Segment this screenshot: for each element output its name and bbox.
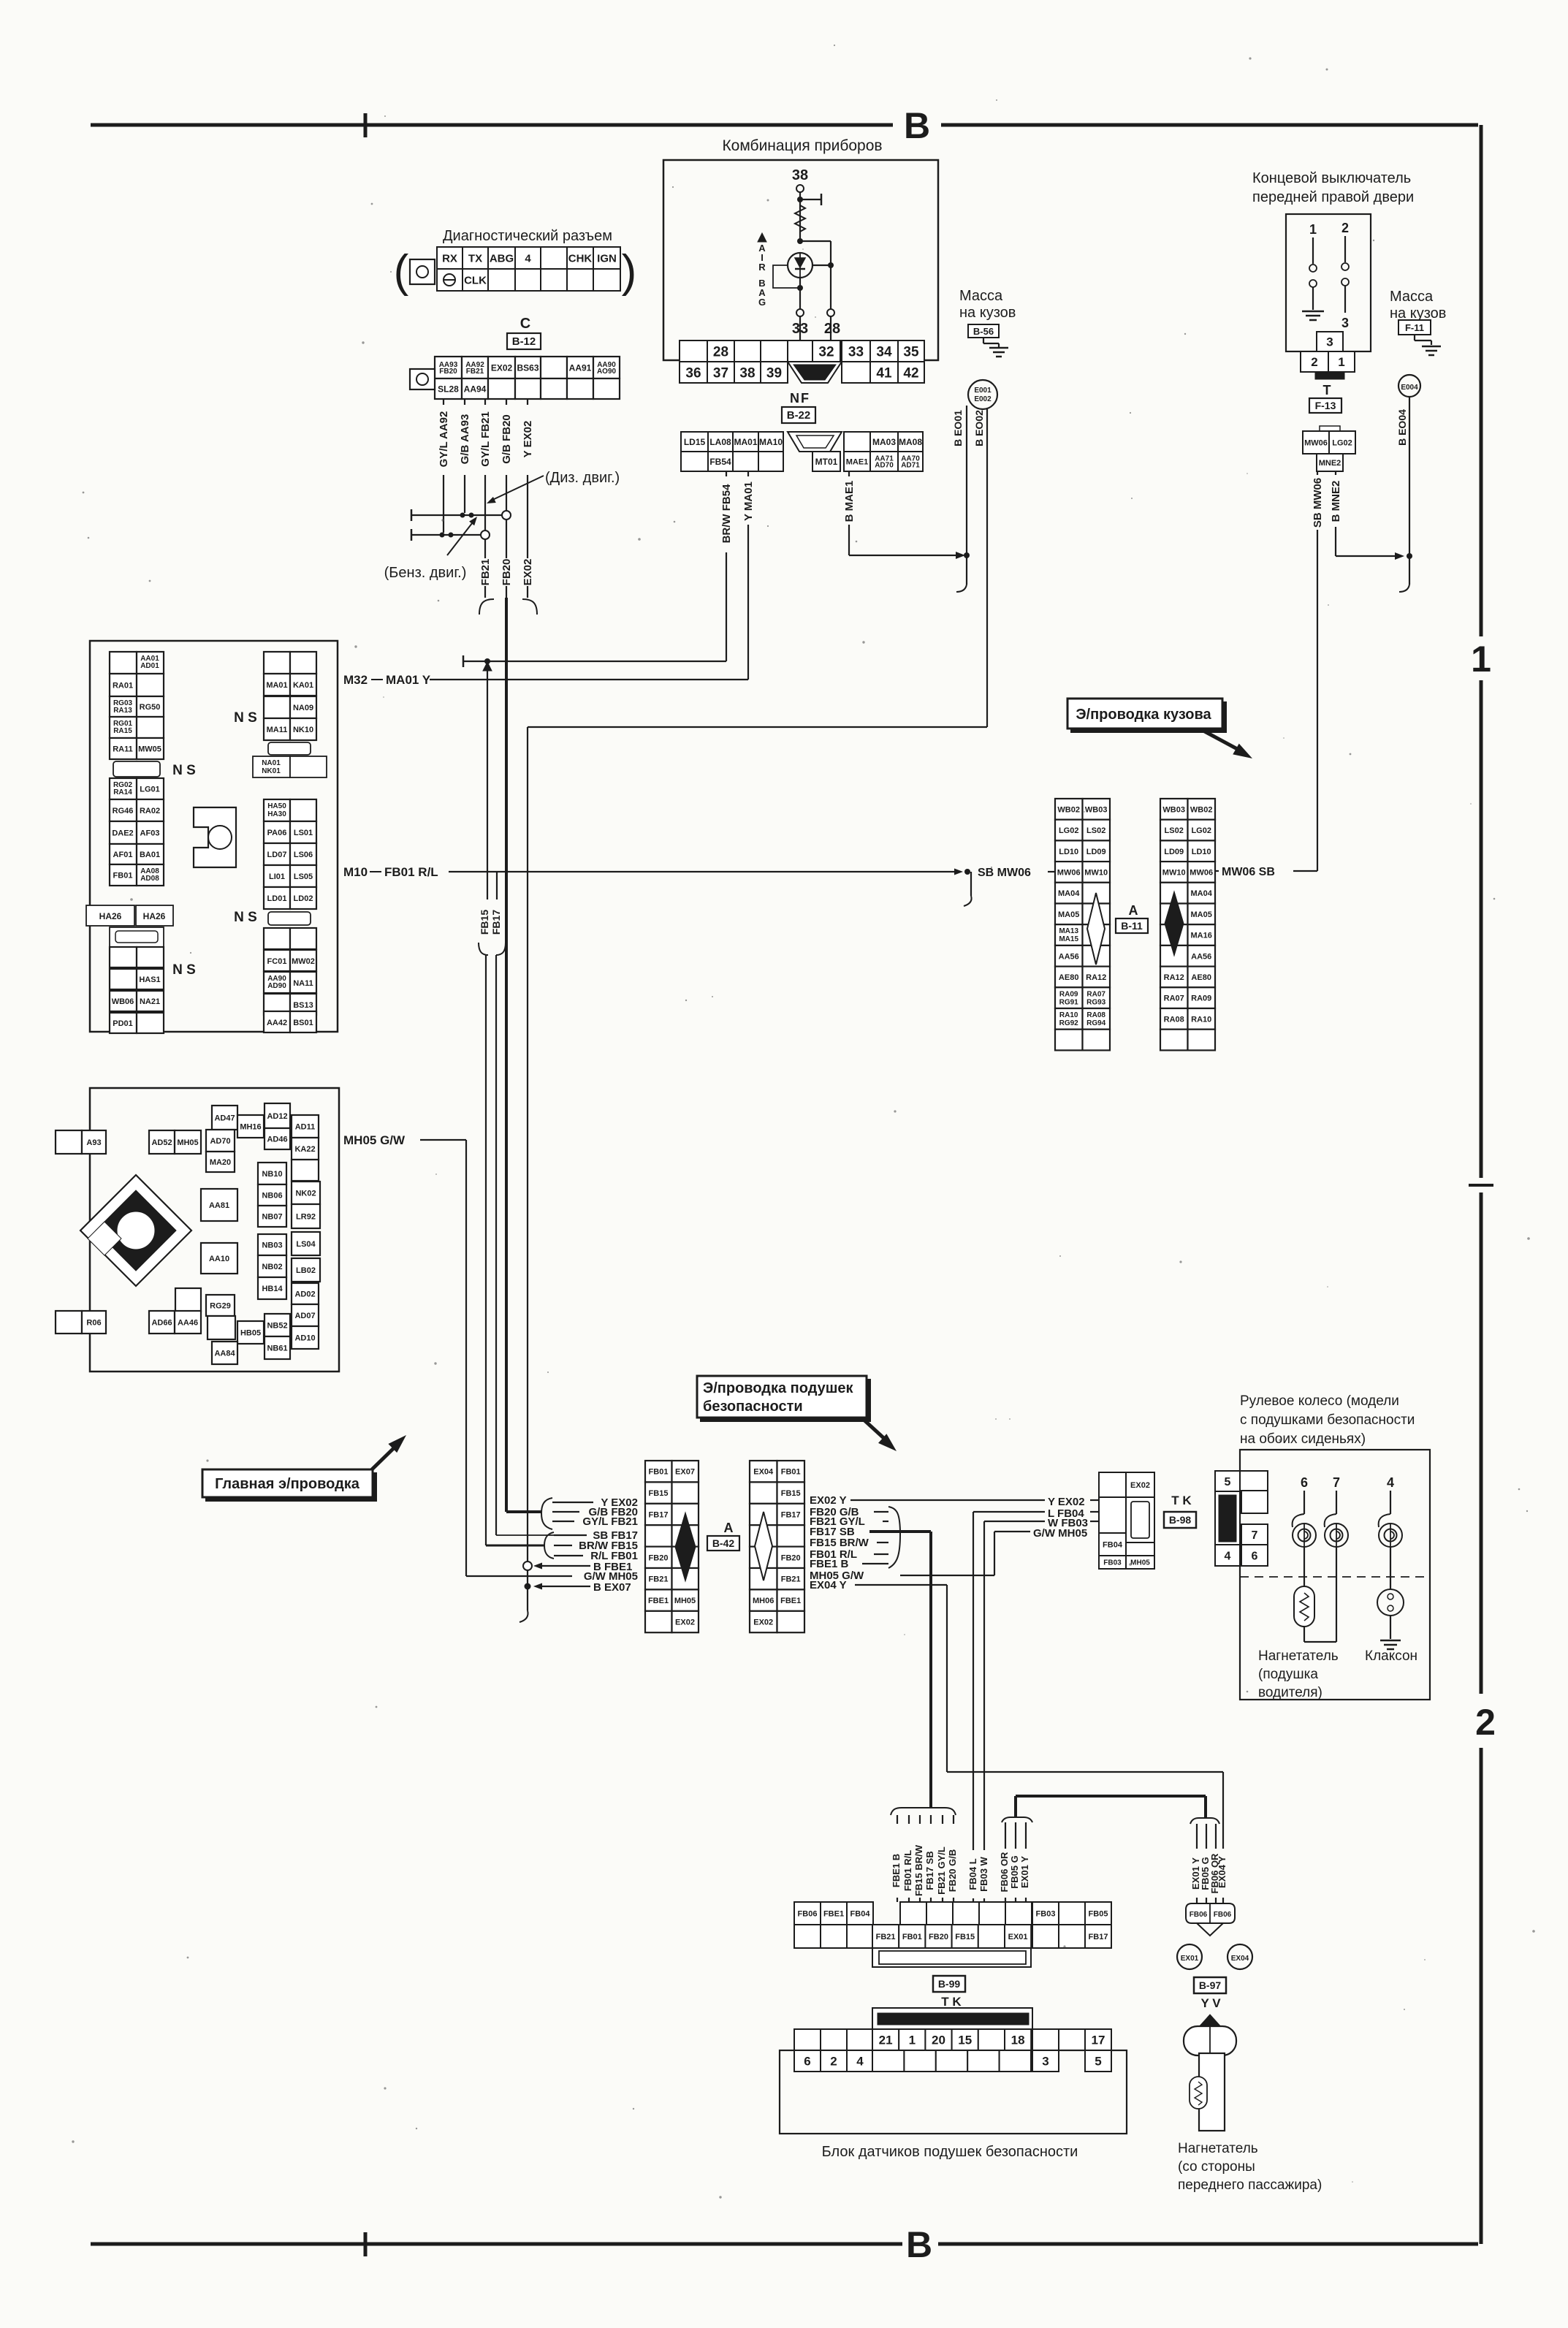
svg-text:AD10: AD10 [294,1334,315,1342]
svg-text:FB20 G/B: FB20 G/B [947,1849,958,1893]
svg-text:MH16: MH16 [240,1122,261,1131]
svg-text:MA01: MA01 [734,437,757,447]
svg-text:MH05: MH05 [177,1138,198,1147]
svg-text:(: ( [394,246,409,297]
svg-text:RA10: RA10 [1191,1015,1211,1024]
svg-text:EX04: EX04 [1231,1955,1249,1963]
svg-text:LS01: LS01 [294,829,313,837]
svg-text:безопасности: безопасности [703,1399,803,1415]
svg-text:FB05: FB05 [1089,1909,1108,1918]
svg-text:Масса: Масса [959,288,1003,304]
svg-text:MW06 SB: MW06 SB [1222,866,1275,878]
svg-text:FB21: FB21 [876,1933,896,1941]
svg-text:AD12: AD12 [267,1112,287,1121]
svg-text:B-12: B-12 [512,335,536,348]
svg-text:28: 28 [713,344,728,360]
svg-text:1: 1 [909,2034,916,2047]
svg-text:MA11: MA11 [267,726,288,734]
svg-text:B-42: B-42 [712,1537,735,1549]
svg-text:Нагнетатель: Нагнетатель [1258,1648,1339,1664]
svg-text:FBE1: FBE1 [780,1597,801,1605]
svg-text:CLK: CLK [464,274,487,286]
svg-text:BS13: BS13 [293,1001,313,1010]
svg-text:7: 7 [1252,1529,1258,1542]
svg-text:B-11: B-11 [1121,920,1143,932]
svg-text:WB06: WB06 [112,997,134,1006]
svg-text:4: 4 [1387,1475,1394,1490]
svg-text:T: T [1323,383,1331,397]
svg-text:WB02: WB02 [1057,805,1080,814]
svg-text:NA09: NA09 [293,704,313,712]
svg-text:HA50: HA50 [267,802,286,810]
svg-text:AD07: AD07 [294,1312,315,1320]
svg-text:NK01: NK01 [262,767,281,775]
svg-text:2: 2 [1475,1702,1496,1743]
svg-text:RA13: RA13 [113,707,132,715]
svg-text:Диагностический разъем: Диагностический разъем [443,228,612,244]
svg-text:MT01: MT01 [815,457,838,467]
svg-text:NB07: NB07 [262,1212,282,1221]
svg-text:MW05: MW05 [138,745,161,754]
svg-text:AD01: AD01 [140,662,159,670]
svg-text:AD47: AD47 [214,1114,235,1122]
svg-text:LA08: LA08 [709,437,731,447]
svg-text:AF03: AF03 [140,829,160,838]
svg-text:N S: N S [234,910,257,925]
svg-text:FB15: FB15 [649,1489,669,1498]
svg-text:Масса: Масса [1390,289,1434,305]
svg-text:NB06: NB06 [262,1191,282,1200]
svg-text:BS63: BS63 [517,362,538,373]
svg-text:EX04: EX04 [753,1468,774,1477]
svg-text:G: G [758,297,766,308]
svg-text:FBE1 B: FBE1 B [891,1854,902,1887]
svg-text:MA04: MA04 [1058,889,1080,898]
svg-text:T K: T K [941,1995,962,2009]
svg-text:(подушка: (подушка [1258,1667,1318,1682]
svg-text:FB17: FB17 [1089,1933,1108,1941]
svg-text:GY/L FB21: GY/L FB21 [582,1515,638,1528]
svg-text:AA94: AA94 [464,384,487,394]
svg-text:на кузов: на кузов [959,305,1016,321]
svg-text:HA26: HA26 [143,911,166,921]
svg-text:HB05: HB05 [240,1328,261,1337]
svg-text:NB03: NB03 [262,1241,282,1249]
svg-text:5: 5 [1095,2055,1101,2069]
svg-text:KA22: KA22 [294,1145,315,1154]
svg-text:AD90: AD90 [267,982,286,990]
svg-text:FB06 OR: FB06 OR [999,1852,1010,1893]
svg-text:R/L FB01: R/L FB01 [590,1550,638,1562]
svg-text:G/B AA93: G/B AA93 [459,414,471,465]
svg-text:4: 4 [525,252,531,265]
svg-text:NB02: NB02 [262,1263,282,1271]
svg-text:FB01: FB01 [902,1933,922,1941]
svg-text:E002: E002 [974,395,992,403]
svg-text:RA02: RA02 [140,807,160,815]
svg-text:RG93: RG93 [1086,998,1106,1006]
svg-text:NB10: NB10 [262,1170,282,1179]
svg-text:FB17 SB: FB17 SB [924,1851,935,1890]
svg-text:RG50: RG50 [140,703,161,712]
svg-text:T K: T K [1171,1494,1192,1507]
svg-text:FB20: FB20 [929,1933,948,1941]
svg-text:FB04 L: FB04 L [967,1858,978,1890]
svg-text:AA10: AA10 [209,1255,229,1263]
svg-text:DAE2: DAE2 [112,829,133,838]
svg-text:17: 17 [1092,2034,1105,2047]
svg-text:MA01 Y: MA01 Y [386,673,431,687]
svg-text:RA07: RA07 [1164,994,1184,1003]
svg-text:(Бенз. двиг.): (Бенз. двиг.) [384,565,467,581]
svg-text:HA26: HA26 [99,911,122,921]
svg-text:LD10: LD10 [1059,848,1078,856]
svg-text:4: 4 [856,2055,864,2069]
svg-text:SL28: SL28 [438,384,459,394]
svg-text:B-98: B-98 [1169,1514,1192,1526]
svg-text:FB15: FB15 [781,1489,801,1498]
svg-text:RA09: RA09 [1059,990,1078,998]
svg-text:B EX07: B EX07 [593,1581,631,1594]
svg-text:EX02 Y: EX02 Y [810,1494,847,1507]
svg-text:LI01: LI01 [269,872,285,881]
svg-text:FB20: FB20 [501,559,513,586]
svg-text:Нагнетатель: Нагнетатель [1178,2141,1258,2156]
svg-text:AD02: AD02 [294,1290,315,1298]
svg-text:HAS1: HAS1 [139,975,160,984]
svg-text:EX04 Y: EX04 Y [1217,1856,1228,1888]
svg-text:RA12: RA12 [1086,973,1106,982]
svg-text:FBE1 B: FBE1 B [810,1558,849,1570]
svg-text:1: 1 [1309,222,1317,237]
svg-text:B-97: B-97 [1199,1979,1222,1991]
svg-text:WB02: WB02 [1190,805,1213,814]
svg-text:водителя): водителя) [1258,1685,1322,1700]
svg-text:MA10: MA10 [759,437,783,447]
svg-text:FB21: FB21 [649,1575,669,1584]
svg-text:FB06: FB06 [798,1909,818,1918]
svg-text:LD01: LD01 [267,894,287,903]
svg-text:FB01: FB01 [649,1468,669,1477]
svg-text:3: 3 [1341,316,1349,330]
svg-text:G/W MH05: G/W MH05 [584,1570,638,1583]
svg-text:RG94: RG94 [1086,1019,1106,1027]
svg-text:MA05: MA05 [1058,910,1079,919]
svg-text:Главная э/проводка: Главная э/проводка [215,1476,360,1492]
svg-text:MA08: MA08 [899,437,922,447]
svg-text:15: 15 [958,2034,972,2047]
svg-text:EX07: EX07 [675,1468,695,1477]
svg-text:EX02: EX02 [753,1618,773,1627]
svg-text:на обоих сиденьях): на обоих сиденьях) [1240,1431,1366,1447]
svg-text:AD11: AD11 [295,1122,316,1131]
svg-text:HA30: HA30 [267,810,286,818]
svg-text:N S: N S [234,710,257,726]
svg-text:RA12: RA12 [1164,973,1184,982]
svg-text:21: 21 [879,2034,893,2047]
svg-text:FB15 BR/W: FB15 BR/W [810,1537,869,1549]
svg-text:4: 4 [1225,1550,1231,1562]
svg-text:37: 37 [713,365,728,381]
svg-text:6: 6 [1252,1550,1258,1562]
svg-text:MH05: MH05 [1130,1559,1150,1567]
svg-text:WB03: WB03 [1162,805,1185,814]
svg-text:RA07: RA07 [1086,990,1105,998]
svg-text:B-22: B-22 [787,409,811,422]
svg-text:E001: E001 [974,387,992,395]
svg-text:RX: RX [442,252,457,265]
svg-text:FB05 G: FB05 G [1009,1855,1020,1889]
svg-text:RA11: RA11 [113,745,133,754]
svg-text:FB17: FB17 [490,910,502,935]
svg-text:FB01 R/L: FB01 R/L [384,865,438,879]
svg-text:3: 3 [1042,2055,1048,2069]
svg-text:FB04: FB04 [1103,1540,1123,1549]
svg-text:MA20: MA20 [210,1158,231,1167]
svg-text:FB21: FB21 [479,559,492,586]
svg-text:MH05: MH05 [674,1597,696,1605]
svg-text:FB20: FB20 [439,368,457,376]
svg-text:FB06: FB06 [1190,1911,1208,1919]
svg-text:FB15 BR/W: FB15 BR/W [913,1844,924,1896]
svg-text:AA42: AA42 [267,1019,287,1027]
svg-text:1: 1 [1471,639,1491,680]
svg-text:EX01: EX01 [1181,1955,1199,1963]
svg-text:HB14: HB14 [262,1285,283,1293]
svg-text:1: 1 [1338,355,1344,369]
svg-text:RA15: RA15 [113,727,132,735]
svg-text:R06: R06 [86,1318,101,1327]
svg-text:AD70: AD70 [210,1137,230,1146]
svg-text:R: R [758,262,766,273]
svg-text:RG46: RG46 [113,807,134,815]
svg-text:LS06: LS06 [294,851,313,859]
svg-text:A93: A93 [86,1138,101,1147]
svg-text:35: 35 [903,344,919,360]
svg-text:MA04: MA04 [1191,889,1213,898]
svg-text:AD08: AD08 [140,875,159,883]
svg-text:A: A [1129,903,1138,918]
svg-text:EX02: EX02 [491,362,513,373]
svg-text:LS04: LS04 [296,1240,316,1249]
svg-text:LB02: LB02 [296,1266,316,1275]
svg-text:39: 39 [766,365,782,381]
svg-text:(Диз. двиг.): (Диз. двиг.) [545,470,620,486]
svg-text:передней правой двери: передней правой двери [1252,189,1414,205]
svg-text:ABG: ABG [490,252,514,265]
svg-text:18: 18 [1011,2034,1025,2047]
svg-text:NK10: NK10 [293,726,313,734]
svg-text:(со стороны: (со стороны [1178,2159,1255,2175]
svg-text:LD15: LD15 [684,437,706,447]
svg-text:FB03: FB03 [1036,1909,1056,1918]
svg-text:LS05: LS05 [294,872,313,881]
svg-text:с подушками безопасности: с подушками безопасности [1240,1412,1415,1428]
svg-text:NK02: NK02 [295,1189,316,1198]
svg-text:B-56: B-56 [973,326,994,337]
svg-text:IGN: IGN [597,252,617,265]
svg-text:36: 36 [685,365,701,381]
svg-text:LR92: LR92 [296,1212,316,1221]
svg-text:B MNE2: B MNE2 [1330,481,1342,522]
svg-text:AE80: AE80 [1059,973,1079,982]
svg-text:Y EX02: Y EX02 [522,421,534,458]
svg-text:FB21: FB21 [466,368,484,376]
svg-text:NA11: NA11 [293,979,313,988]
svg-text:LD07: LD07 [267,851,287,859]
svg-text:2: 2 [1341,221,1349,235]
svg-text:FB01 R/L: FB01 R/L [902,1850,913,1891]
svg-text:MA15: MA15 [1059,935,1078,943]
svg-text:B: B [904,105,930,146]
svg-text:AA91: AA91 [569,362,592,373]
svg-text:38: 38 [739,365,755,381]
svg-text:28: 28 [824,321,840,337]
svg-text:G/W MH05: G/W MH05 [1033,1527,1087,1540]
svg-text:FB01: FB01 [781,1468,801,1477]
svg-text:AA56: AA56 [1059,952,1079,961]
svg-text:LD02: LD02 [294,894,313,903]
svg-text:AE80: AE80 [1191,973,1211,982]
svg-text:на кузов: на кузов [1390,305,1446,322]
svg-text:FC01: FC01 [267,957,287,966]
svg-text:MW06: MW06 [1057,868,1081,877]
svg-text:LS02: LS02 [1086,826,1105,835]
svg-text:M32: M32 [343,673,368,687]
svg-text:AD66: AD66 [151,1318,172,1327]
svg-text:B MAE1: B MAE1 [843,481,856,522]
svg-text:2: 2 [1311,355,1317,369]
svg-text:RG92: RG92 [1059,1019,1079,1027]
svg-text:FB04: FB04 [850,1909,871,1918]
svg-text:FB17: FB17 [781,1511,801,1520]
svg-text:KA01: KA01 [293,681,313,690]
svg-text:FB21: FB21 [781,1575,801,1584]
svg-text:LD10: LD10 [1192,848,1211,856]
svg-text:FB21 GY/L: FB21 GY/L [936,1846,947,1895]
svg-text:3: 3 [1326,335,1333,349]
svg-text:20: 20 [932,2034,945,2047]
svg-text:FB03: FB03 [1103,1559,1122,1567]
svg-text:41: 41 [876,365,892,381]
svg-text:C: C [520,316,530,332]
svg-text:AF01: AF01 [113,851,133,859]
svg-text:LD09: LD09 [1086,848,1106,856]
svg-text:RA09: RA09 [1191,994,1211,1003]
svg-text:AD52: AD52 [151,1138,172,1147]
svg-text:MA16: MA16 [1191,932,1212,940]
svg-text:F-13: F-13 [1315,400,1336,411]
svg-text:Клаксон: Клаксон [1365,1648,1417,1664]
svg-text:EX02: EX02 [675,1618,695,1627]
svg-text:MH06: MH06 [753,1597,774,1605]
svg-text:N S: N S [172,962,196,978]
svg-text:): ) [622,246,637,297]
svg-text:RA14: RA14 [113,788,132,796]
svg-text:PD01: PD01 [113,1019,133,1028]
svg-text:FB15: FB15 [955,1933,975,1941]
svg-text:FB54: FB54 [709,457,731,467]
svg-text:FB03 W: FB03 W [978,1856,989,1891]
svg-text:MAE1: MAE1 [846,457,869,466]
svg-text:AD46: AD46 [267,1135,287,1144]
svg-text:32: 32 [818,344,834,360]
svg-text:Э/проводка кузова: Э/проводка кузова [1076,707,1211,723]
svg-text:B-99: B-99 [938,1978,961,1990]
svg-text:FB06: FB06 [1214,1911,1232,1919]
svg-text:B EO02: B EO02 [973,410,985,446]
svg-text:SB MW06: SB MW06 [978,867,1031,879]
svg-text:B EO01: B EO01 [952,410,964,446]
svg-text:N S: N S [172,763,196,778]
svg-text:BS01: BS01 [293,1019,313,1027]
svg-text:FB01: FB01 [113,872,133,880]
svg-text:AA56: AA56 [1191,952,1211,961]
svg-text:LG02: LG02 [1332,438,1352,447]
svg-text:AA81: AA81 [209,1201,229,1210]
svg-text:MW10: MW10 [1084,868,1108,877]
svg-text:RG29: RG29 [210,1301,231,1310]
svg-text:FB17: FB17 [649,1511,669,1520]
svg-text:6: 6 [804,2055,810,2069]
svg-text:Y MA01: Y MA01 [742,482,755,521]
svg-text:NA21: NA21 [140,997,160,1006]
svg-text:NA01: NA01 [262,759,281,767]
svg-text:Э/проводка подушек: Э/проводка подушек [703,1380,854,1396]
svg-text:RA08: RA08 [1086,1011,1105,1019]
svg-text:MW02: MW02 [292,957,315,966]
svg-text:M10: M10 [343,865,368,879]
svg-text:GY/L AA92: GY/L AA92 [438,411,450,468]
svg-text:LG02: LG02 [1059,826,1079,835]
svg-text:FB15: FB15 [479,910,490,935]
svg-text:NF: NF [790,391,810,406]
svg-text:B: B [906,2224,932,2265]
svg-text:MA03: MA03 [872,437,896,447]
svg-text:LD09: LD09 [1164,848,1184,856]
svg-text:EX01: EX01 [1008,1933,1028,1941]
svg-text:MA05: MA05 [1191,910,1212,919]
svg-text:AD71: AD71 [901,462,920,470]
svg-text:AA46: AA46 [178,1318,198,1327]
svg-text:RA01: RA01 [113,682,133,691]
svg-text:PA06: PA06 [267,829,287,837]
svg-text:A: A [724,1521,734,1535]
svg-text:34: 34 [876,344,892,360]
svg-text:MH05 G/W: MH05 G/W [343,1133,406,1147]
svg-text:FBE1: FBE1 [648,1597,669,1605]
svg-text:6: 6 [1301,1475,1308,1490]
svg-text:RA08: RA08 [1164,1015,1184,1024]
svg-text:Y EX02: Y EX02 [1048,1496,1085,1508]
svg-text:MA13: MA13 [1059,927,1078,935]
svg-text:Комбинация приборов: Комбинация приборов [722,137,882,154]
svg-text:AD70: AD70 [875,462,894,470]
svg-text:SB MW06: SB MW06 [1312,478,1324,528]
svg-text:MW06: MW06 [1304,438,1328,447]
svg-text:MNE2: MNE2 [1319,459,1341,468]
svg-text:FB20: FB20 [781,1553,801,1562]
svg-text:Рулевое колесо (модели: Рулевое колесо (модели [1240,1393,1399,1409]
svg-text:E004: E004 [1401,384,1418,392]
svg-text:TX: TX [468,252,482,265]
svg-text:LS02: LS02 [1165,826,1184,835]
svg-text:2: 2 [830,2055,837,2069]
svg-text:7: 7 [1333,1475,1340,1490]
svg-text:5: 5 [1225,1476,1231,1488]
svg-text:EX02: EX02 [522,559,534,586]
svg-text:RA10: RA10 [1059,1011,1078,1019]
